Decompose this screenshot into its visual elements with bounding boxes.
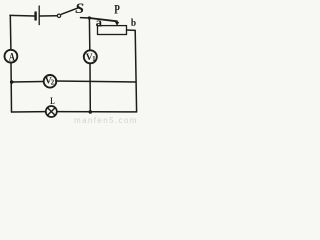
wire left vertical [9, 15, 12, 50]
lamp L [46, 106, 57, 117]
wiper arrow [116, 21, 118, 23]
wire middle horizontal [12, 81, 44, 84]
svg-text:1: 1 [92, 55, 96, 63]
svg-text:L: L [50, 96, 55, 106]
voltmeter V2 [44, 75, 57, 88]
svg-text:P: P [114, 1, 120, 16]
svg-text:manfen5.com: manfen5.com [74, 116, 138, 125]
ammeter A [4, 50, 17, 63]
wire V2 to right rail [56, 81, 136, 82]
wire V1 lead vertical [88, 18, 90, 50]
svg-text:2: 2 [51, 79, 55, 87]
battery [36, 6, 40, 25]
wire right vertical [135, 30, 136, 112]
wire bottom horizontal right of lamp [57, 111, 137, 113]
switch S [57, 8, 79, 18]
svg-text:b: b [131, 18, 136, 29]
svg-text:a: a [96, 15, 103, 29]
wire b to right rail [127, 29, 136, 31]
wire bottom horizontal left of lamp [12, 111, 46, 113]
voltmeter V1 [84, 50, 97, 63]
wire battery to switch [40, 15, 57, 17]
wire wiper bar [89, 18, 117, 21]
node dot bottom junction [89, 110, 93, 114]
svg-text:A: A [9, 49, 15, 63]
rheostat box [98, 26, 127, 35]
svg-text:S: S [75, 1, 84, 17]
wire V1 bottom to bottom rail [89, 64, 91, 112]
wire switch to corner [81, 17, 90, 19]
node dot mid-left junction [10, 80, 14, 84]
wire top-left horizontal [10, 14, 35, 17]
node dot at switch-corner junction [88, 16, 91, 19]
wire A to bottom-left corner [10, 63, 13, 113]
